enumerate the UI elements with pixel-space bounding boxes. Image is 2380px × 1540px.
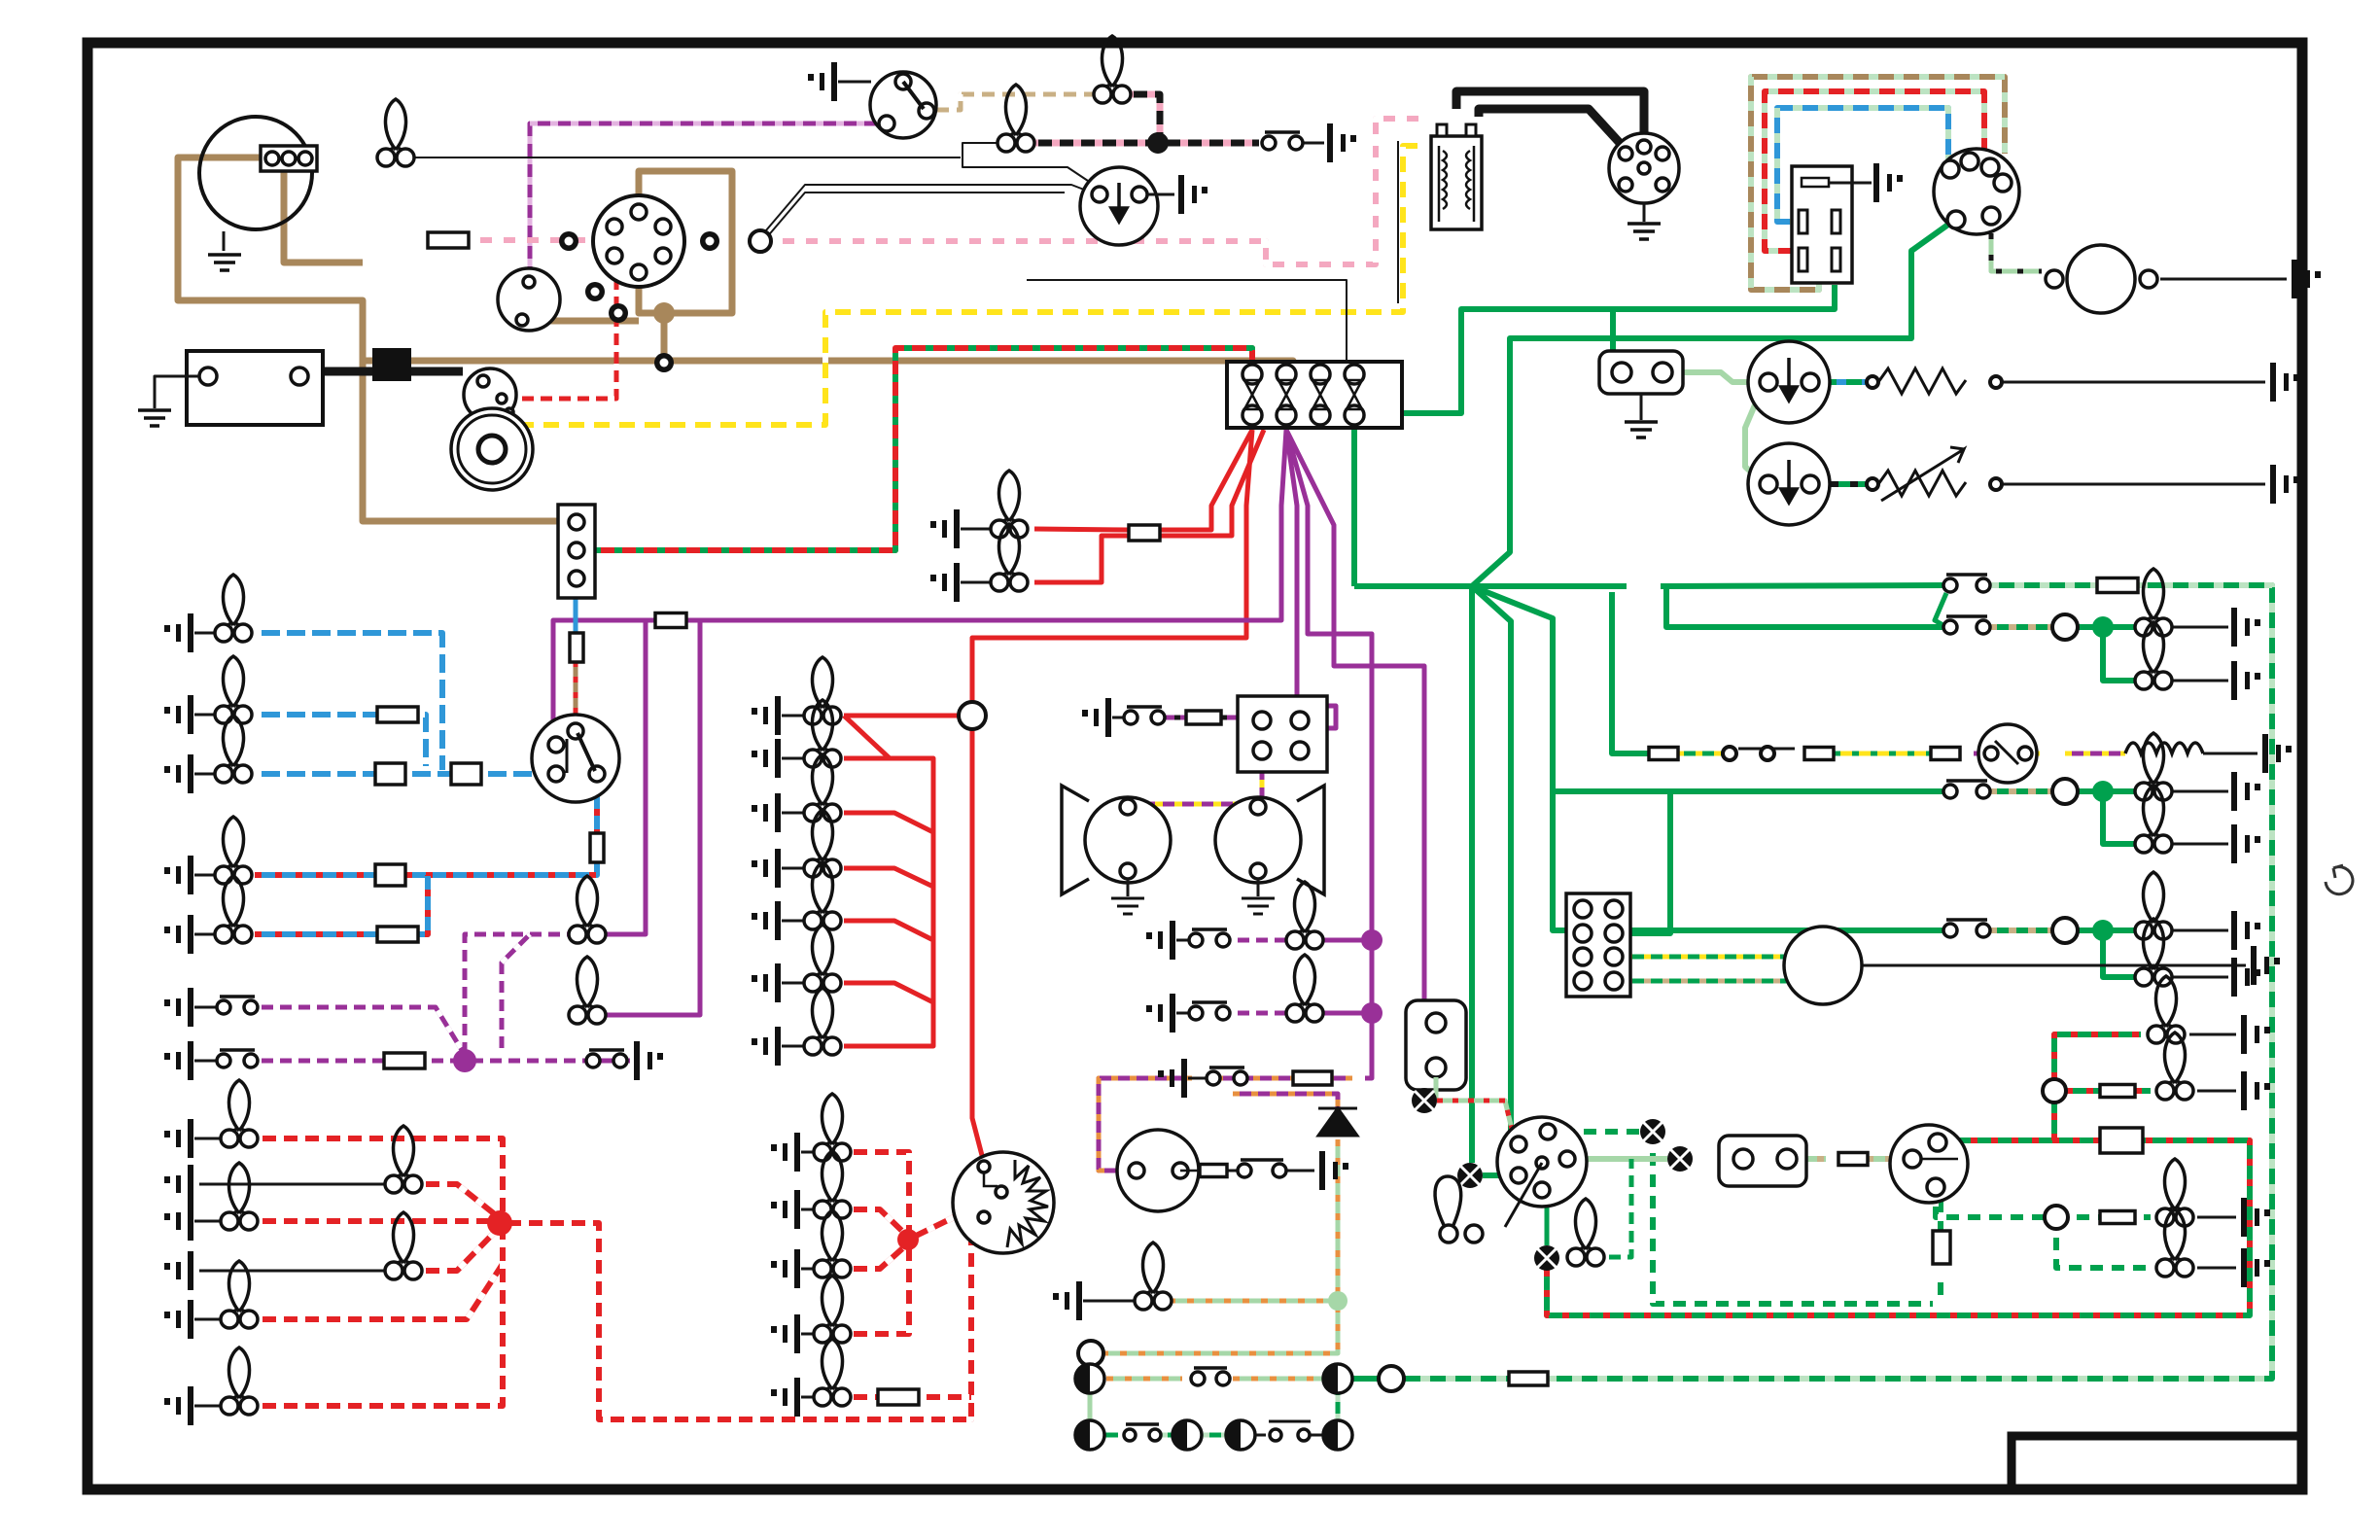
- wire white pair lower: [760, 185, 1097, 237]
- ring heater resistor a: [1867, 478, 1878, 490]
- wire red lamp stub 5: [844, 983, 933, 1002]
- wire green-white ind branch c: [2135, 1214, 2151, 1220]
- ground horn switch: [1082, 698, 1111, 737]
- lamp repeater 4: [1172, 1420, 1202, 1450]
- fuse lighter: [1129, 525, 1160, 541]
- wire red instrument bus 2: [844, 758, 933, 1046]
- wire green row2 riser: [1336, 1394, 1341, 1420]
- speedometer: [1784, 927, 1862, 1004]
- wire green row link: [1935, 593, 1946, 627]
- ground lamp marker 1: [771, 1133, 800, 1172]
- wire green-white ind drop: [1653, 1144, 1933, 1304]
- wire green tail row1 gnd1: [2162, 626, 2228, 629]
- lamp indicator top: [1640, 1119, 1665, 1144]
- wire gnd lamp marker 4: [801, 1333, 819, 1336]
- wire gnd lamp courtesy 2: [1176, 1012, 1188, 1015]
- wire green junction diag 3: [1472, 586, 1944, 930]
- ground clock: [930, 563, 960, 602]
- wire blue-white beam 2b: [418, 715, 426, 766]
- switch stop: [1943, 616, 1990, 634]
- ground fuel sender: [1319, 1151, 1348, 1190]
- connector ring white2: [609, 303, 628, 323]
- wire green-white ind riser: [1938, 1279, 1943, 1304]
- lamp ind right: [1667, 1146, 1693, 1172]
- ground wiper motor: [1178, 175, 1207, 214]
- wire purple-black horn push: [1151, 716, 1262, 720]
- ground horn low bars: [1111, 898, 1144, 914]
- wire red fuse to panel rheostat: [972, 430, 1252, 704]
- wire purple courtesy 1: [1318, 938, 1372, 943]
- lamp stop 2: [2135, 622, 2172, 689]
- wire purple-white ignition feed: [530, 123, 885, 272]
- wire red lamp stub 1: [844, 756, 890, 761]
- switch door L: [217, 997, 258, 1014]
- lamp reverse 2: [2135, 786, 2172, 853]
- wire gnd lamp tail L: [194, 1137, 226, 1140]
- wire purple flasher feed: [1286, 430, 1424, 1011]
- ground rear lamp 1: [2241, 1015, 2270, 1054]
- wire pale-green box out: [1799, 1156, 1826, 1162]
- wire green row2 c: [1203, 1433, 1225, 1438]
- wire purple-white door riser: [465, 934, 574, 1061]
- lamp indicator pilot: [1534, 1245, 1559, 1271]
- junction rear fog: [2092, 920, 2114, 941]
- wire red lighter A lamp: [1034, 529, 1129, 530]
- ground lamp headlamp aux: [164, 754, 193, 793]
- ground heated window: [2262, 734, 2292, 773]
- lamp marker 2: [814, 1151, 851, 1218]
- ignition switch: [870, 72, 936, 138]
- wire pale-green relay to wiper: [1674, 372, 1765, 382]
- ground lamp courtesy 1: [1146, 921, 1175, 960]
- wire yellow solenoid to coil: [508, 146, 1427, 425]
- wire green stop row feed: [1661, 583, 1666, 589]
- lamp side repeater 1: [1075, 1364, 1104, 1393]
- wire brown main bus: [363, 361, 1293, 371]
- fuse beam 3b: [451, 763, 481, 785]
- starter solenoid: [464, 368, 516, 421]
- wire blue-white beam 3c: [481, 771, 550, 777]
- lamp panel 4: [804, 810, 841, 877]
- wire green relay branch: [1610, 309, 1616, 351]
- ring repeater: [1379, 1366, 1404, 1391]
- switch door R: [217, 1050, 258, 1067]
- lamp repeater 3: [1075, 1420, 1104, 1450]
- switch heater fan: [1748, 443, 1830, 525]
- wire purple horn relay feed: [1286, 430, 1297, 696]
- wire gnd lamp panel 3: [782, 812, 809, 815]
- wire black number plate 1: [199, 1183, 389, 1186]
- wire green-red rear ring out: [2066, 1088, 2100, 1094]
- wire purple hazard feed: [1286, 430, 1372, 1078]
- wire purple-yellow horn bus: [1136, 802, 1262, 807]
- wire red-pale harness loop: [1765, 91, 1984, 251]
- ground stop 1: [2231, 608, 2260, 647]
- fuse ind rear: [2100, 1211, 2135, 1224]
- resistor wiper 1: [1878, 368, 1966, 394]
- wire purple-white door switch 1: [255, 1007, 465, 1055]
- lamp plate 1: [385, 1126, 422, 1193]
- lamp indicator repeater: [1567, 1199, 1604, 1266]
- lamp plate 2: [385, 1212, 422, 1279]
- diode hazard: [1318, 1108, 1357, 1136]
- junction purple 1: [1361, 929, 1382, 951]
- wire red-white solenoid to distributor: [515, 270, 616, 399]
- connector open pink: [750, 230, 771, 252]
- wire purple-white courtesy 1: [1231, 938, 1293, 943]
- wire pink fuel-pump feed b: [771, 119, 1427, 264]
- ground hazard switch: [1158, 1059, 1187, 1098]
- wire green wiper row drop: [1612, 592, 1649, 753]
- connector solder joint: [372, 348, 411, 381]
- lamp boot: [1135, 1242, 1172, 1310]
- wire purple map lamp 1: [603, 620, 646, 934]
- ground lamp side R: [164, 1386, 193, 1425]
- dynamo: [199, 117, 312, 229]
- battery: [187, 351, 323, 425]
- wire blue-red dip 2: [255, 931, 377, 937]
- wire purple-orange diode link: [1233, 1094, 1338, 1108]
- fuse beam 2: [377, 707, 418, 722]
- rheostat lever: [984, 1172, 997, 1186]
- ring lamp row: [1078, 1341, 1103, 1366]
- wire gnd lamp panel 4: [782, 867, 809, 870]
- ground reverse 1: [2231, 772, 2260, 811]
- horn high: [1215, 786, 1324, 894]
- wire green tail row1 a: [1989, 624, 2053, 630]
- wire black speedo gnd: [1861, 964, 2246, 967]
- wire blue-pale harness loop: [1777, 108, 1948, 222]
- ground distributor bars: [1627, 224, 1661, 239]
- wire black ind gnd 2: [2197, 1267, 2236, 1270]
- flasher unit: [1406, 1000, 1466, 1090]
- lamp panel 1: [804, 657, 841, 724]
- wire pale-orange lamp row: [1106, 1377, 1182, 1382]
- wire red panel lamp1 to ring: [844, 714, 959, 718]
- title block: [2012, 1436, 2302, 1489]
- switch lamp courtesy 2: [1189, 1002, 1230, 1020]
- ground lamp panel 6: [752, 963, 781, 1002]
- wire black horn switch to ground: [1296, 142, 1324, 145]
- fuse pink inline: [428, 232, 469, 248]
- lamp repeater 6: [1323, 1420, 1352, 1450]
- wire red instrument bus: [844, 716, 890, 758]
- voltage stabilizer: [1599, 351, 1683, 394]
- fuse interior bus: [655, 613, 686, 628]
- wire gnd lamp marker 5: [801, 1396, 819, 1399]
- ground reverse 2: [2231, 824, 2260, 863]
- lamp rear fog 1: [2135, 872, 2172, 939]
- wire green tail row3 b: [2077, 927, 2141, 933]
- wire green-red rear ring out b: [2135, 1088, 2151, 1094]
- switch rear fog: [1943, 920, 1990, 937]
- connector ring white1: [585, 282, 605, 301]
- junction distributor: [593, 195, 684, 287]
- wire pale-orange map lamp: [1169, 1299, 1338, 1304]
- fuse ind lower vertical: [1933, 1231, 1950, 1264]
- switch hazard: [1207, 1067, 1247, 1085]
- wire green-tan speedo 2: [1626, 979, 1789, 984]
- lamp panel 5: [804, 862, 841, 929]
- wire white coil parallel: [1397, 141, 1399, 303]
- wire red-white tail lamp 5: [255, 1264, 503, 1319]
- wire purple-white door switch 2: [255, 1059, 384, 1064]
- wire pale-green-red flasher link: [1437, 1101, 1515, 1141]
- connector 8-way: [1566, 893, 1630, 997]
- fuse dip big: [375, 864, 405, 886]
- ground lamp panel 1: [752, 696, 781, 735]
- fuse wiper row 1: [1649, 748, 1678, 760]
- fuse door: [384, 1053, 425, 1068]
- lamp ignition warning: [377, 99, 414, 166]
- wire black wiper blade: [1738, 748, 1795, 751]
- wire green-white ind branch: [1936, 1198, 2045, 1217]
- lamp stop 1: [2135, 569, 2172, 636]
- wire purple-white door switch 3: [465, 1059, 630, 1064]
- lamp headlamp main R: [215, 656, 252, 723]
- lamp warning flasher: [1412, 1088, 1437, 1113]
- fuse box: [1227, 362, 1402, 428]
- wire gnd lamp marker 2: [801, 1208, 819, 1211]
- wire gnd lamp panel 1: [782, 715, 809, 717]
- wire ignition ground: [838, 81, 871, 84]
- wire green-red rear loop: [1547, 1140, 2250, 1315]
- wire black-pink horn feed: [1126, 94, 1160, 143]
- wire blue-red dip 2b: [404, 875, 428, 934]
- junction stop: [2092, 616, 2114, 638]
- wire control box gnd: [1829, 182, 1872, 185]
- wire green-blue wiper resistor: [1811, 379, 1867, 385]
- ground dynamo bars: [208, 255, 241, 270]
- lamp panel 6: [804, 925, 841, 992]
- wire red-white marker 5b: [919, 1394, 971, 1400]
- wire pale-green box out b: [1867, 1156, 1898, 1162]
- ring heater resistor b: [1990, 478, 2002, 490]
- junction black dot: [1147, 132, 1169, 154]
- wire green-white ind lower: [2056, 1229, 2151, 1268]
- wire green row2 b: [1161, 1433, 1172, 1438]
- wire green tail row3 gnd1: [2162, 929, 2228, 932]
- junction reverse: [2092, 781, 2114, 802]
- wire red-white tail bus: [500, 1212, 984, 1419]
- junction red marker: [897, 1229, 919, 1250]
- ground battery bars: [138, 410, 171, 426]
- wire red fuse to lighter A: [1160, 430, 1252, 530]
- ground stop 2: [2231, 661, 2260, 700]
- wire wiper ground: [1147, 193, 1174, 196]
- wire gnd horn switch: [1112, 717, 1124, 719]
- relay horn: [1238, 696, 1327, 772]
- wire distributor gnd: [1643, 203, 1646, 222]
- wire green junction diag 2: [1472, 586, 1541, 1132]
- ground lamp headlamp main R: [164, 695, 193, 734]
- fuse horn: [1186, 711, 1221, 724]
- lamp marker 4: [814, 1276, 851, 1343]
- ground lamp tail R: [164, 1202, 193, 1241]
- ring stop: [2052, 614, 2078, 640]
- wire green fuse4 down: [1351, 416, 1357, 586]
- wire gnd lamp panel 7: [782, 1045, 809, 1048]
- inductor heater motor: [2125, 743, 2203, 753]
- switch direction indicator: [1497, 1117, 1587, 1227]
- wire gnd switch door R: [194, 1060, 216, 1063]
- connector 2-way box: [1719, 1136, 1806, 1186]
- wire red-white marker 1: [846, 1152, 909, 1240]
- wire pale-green-black fuel feed: [1991, 233, 2042, 271]
- wire black wiper gnd 2: [2003, 483, 2265, 486]
- lamp headlamp aux: [215, 716, 252, 783]
- lamp side R: [221, 1347, 258, 1415]
- fuse beam vertical: [570, 633, 583, 662]
- wire red lamp stub 4: [844, 921, 933, 940]
- wire pale-green wiper link: [1745, 382, 1765, 484]
- connector block 3-way: [558, 505, 595, 598]
- lamp cigar lighter: [991, 471, 1028, 538]
- ground lamp headlamp dip L: [164, 856, 193, 894]
- wire red-white tail lamp 1: [255, 1138, 503, 1221]
- wire blue-red dip 1b: [405, 859, 597, 875]
- ground lamp tail L: [164, 1119, 193, 1158]
- wire pink fuel-pump feed a: [469, 237, 595, 243]
- switch row1 brake: [1943, 575, 1990, 592]
- fuse repeater: [1509, 1372, 1548, 1385]
- connector rear lamps: [1890, 1125, 1968, 1203]
- wire green-white ind branch b: [2068, 1214, 2100, 1220]
- wire gnd lamp side R: [194, 1405, 226, 1408]
- wire green junction right: [1472, 583, 1627, 589]
- ground control box: [1873, 163, 1903, 202]
- wire blue-white beam 2: [255, 712, 377, 717]
- ground switch door L: [164, 988, 193, 1027]
- ground lighter: [930, 509, 960, 548]
- wire brown-red column link: [574, 661, 578, 727]
- wire black coil HT lead: [1456, 91, 1644, 156]
- wire black-pink horn bus: [1031, 140, 1259, 147]
- rheostat panel lights: [953, 1152, 1054, 1253]
- switch repeater b: [1124, 1424, 1161, 1441]
- wire gnd lamp headlamp main R: [194, 714, 220, 717]
- lamp map light 2: [569, 957, 606, 1024]
- wire green-white ind row: [1554, 1129, 1641, 1135]
- switch panel round: [1978, 724, 2037, 783]
- wire blue-red dip 1: [255, 872, 375, 878]
- lamp repeater 5: [1226, 1420, 1255, 1450]
- wire green junction down 1: [1469, 586, 1475, 1163]
- wire gnd lamp panel 5: [782, 920, 809, 923]
- ground rear fog 2: [2231, 958, 2260, 997]
- wire pale-green lamp drop: [1088, 1394, 1093, 1420]
- fuse wiper row 2: [1804, 748, 1834, 760]
- wire red-white marker 2: [846, 1209, 908, 1237]
- wire black row2 switch b: [1311, 1434, 1322, 1437]
- switch interior override: [586, 1050, 627, 1067]
- switch repeater row: [1191, 1368, 1230, 1385]
- fuse wiper row 3: [1931, 748, 1960, 760]
- wire red lamp stub 3: [844, 868, 933, 887]
- ground horn push: [1327, 123, 1356, 162]
- ground lamp panel 2: [752, 739, 781, 778]
- fuse rear big: [2100, 1128, 2143, 1153]
- ring ind rear: [2045, 1206, 2068, 1229]
- wire green tail row2 a: [1989, 788, 2053, 794]
- ground lamp headlamp main L: [164, 613, 193, 652]
- lamp side L: [221, 1261, 258, 1328]
- wire pale-orange lamp row b: [1233, 1377, 1322, 1382]
- ground ind rear 2: [2241, 1248, 2270, 1287]
- wire green tail row2 c: [2103, 791, 2141, 844]
- wire green row2 a: [1105, 1433, 1118, 1438]
- fuse hazard: [1293, 1071, 1332, 1085]
- tachometer sender: [498, 268, 560, 331]
- wire purple interior fuse out: [553, 620, 655, 741]
- ground ind rear 1: [2241, 1198, 2270, 1237]
- lamp headlamp main L: [215, 575, 252, 642]
- wire green fuse out right: [1661, 586, 1944, 627]
- lamp clock: [991, 524, 1028, 591]
- ring wiper row b: [1761, 747, 1774, 760]
- wire red-white tail lamp 4: [418, 1227, 500, 1271]
- wire red-white tail lamp 6: [255, 1227, 503, 1406]
- wire green fuse4 up: [1354, 285, 1835, 413]
- wire red-white marker 3: [846, 1243, 908, 1269]
- junction brown dot: [653, 302, 675, 324]
- junction pale green: [1328, 1291, 1347, 1311]
- wire purple-white door fuse out: [425, 1059, 465, 1064]
- wire green-red rear a: [1954, 1140, 2100, 1145]
- wire gnd lamp marker 3: [801, 1268, 819, 1271]
- ground horn high bars: [1242, 898, 1275, 914]
- starter motor: [451, 408, 533, 490]
- switch fuel sender: [1238, 1160, 1286, 1177]
- wire horn high gnd: [1257, 879, 1260, 896]
- fuse row1: [2097, 578, 2138, 593]
- switch horn: [1124, 707, 1165, 724]
- wire green tail row1 gnd2: [2162, 680, 2228, 682]
- wire black gauge line: [1227, 1170, 1237, 1172]
- wire red-white tail lamp 2: [418, 1184, 500, 1218]
- fuse beam 3a: [375, 763, 405, 785]
- wire black gauge line b: [1279, 1170, 1314, 1172]
- lamp oil pressure: [997, 85, 1034, 152]
- wire green-red rear riser: [2054, 1034, 2141, 1140]
- wire green-black wiper resistor 2: [1811, 481, 1867, 487]
- fuse marker: [878, 1389, 919, 1405]
- wire black ring drop: [1090, 1366, 1093, 1394]
- wire gnd lamp panel 6: [782, 982, 809, 985]
- dynamo terminal block: [261, 146, 317, 171]
- lamp side repeater 2: [1323, 1364, 1352, 1393]
- wire gnd boot lamp: [1083, 1300, 1139, 1303]
- connector ring pink a: [559, 231, 578, 251]
- wire green switch to xlamp: [1483, 1172, 1509, 1178]
- switch lighting: [532, 715, 619, 802]
- lamp rear lamp 2: [2156, 1032, 2193, 1100]
- wire gnd lamp headlamp dip R: [194, 933, 220, 936]
- lamp tail R: [221, 1163, 258, 1230]
- ground interior override: [634, 1041, 663, 1080]
- lamp marker 3: [814, 1210, 851, 1277]
- wire gnd lamp headlamp main L: [194, 632, 220, 635]
- wire pale-green flasher out: [1424, 1077, 1436, 1101]
- wire green tail row3 gnd2: [2162, 976, 2228, 979]
- fuse dip 2: [377, 927, 418, 942]
- wire black fuel gnd: [2160, 278, 2287, 281]
- resistor wiper 2 rheostat: [1878, 471, 1966, 496]
- lamp map light 1: [569, 876, 606, 943]
- wire red lighter B lamp: [1034, 536, 1129, 582]
- wire blue-red dip riser: [594, 778, 600, 836]
- wire purple courtesy 2: [1318, 1011, 1372, 1016]
